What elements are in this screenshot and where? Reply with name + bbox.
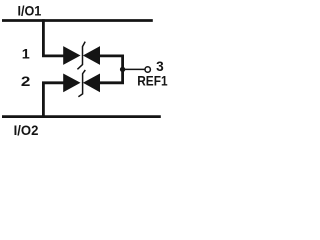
svg-text:2: 2 — [21, 73, 31, 89]
junction dot on REF vertical — [120, 67, 125, 72]
terminal open circle pin 3 — [145, 67, 150, 72]
TVS diode D2 center bar with hooks — [78, 70, 85, 97]
wire: REF stub to terminal — [123, 68, 145, 70]
wire: I/O1 top rail — [2, 19, 153, 22]
svg-text:I/O2: I/O2 — [14, 122, 39, 138]
svg-text:I/O1: I/O1 — [17, 3, 41, 19]
TVS diode D1 center bar with hooks — [77, 42, 85, 70]
wire: pin 2 branch from D2 anode down to bottom rail — [43, 83, 63, 118]
TVS diode D1 right triangle — [83, 46, 100, 65]
TVS diode D1 (bidirectional) left triangle — [63, 46, 80, 65]
svg-text:REF1: REF1 — [137, 72, 167, 88]
wire: D1 cathode to REF vertical to D2 cathode — [100, 56, 123, 83]
svg-text:1: 1 — [22, 46, 30, 62]
TVS diode D2 (bidirectional) left triangle — [63, 74, 80, 93]
TVS diode D2 right triangle — [83, 74, 100, 93]
wire: I/O2 bottom rail — [2, 115, 161, 118]
wire: pin 1 branch from top rail to D1 anode — [43, 19, 63, 56]
